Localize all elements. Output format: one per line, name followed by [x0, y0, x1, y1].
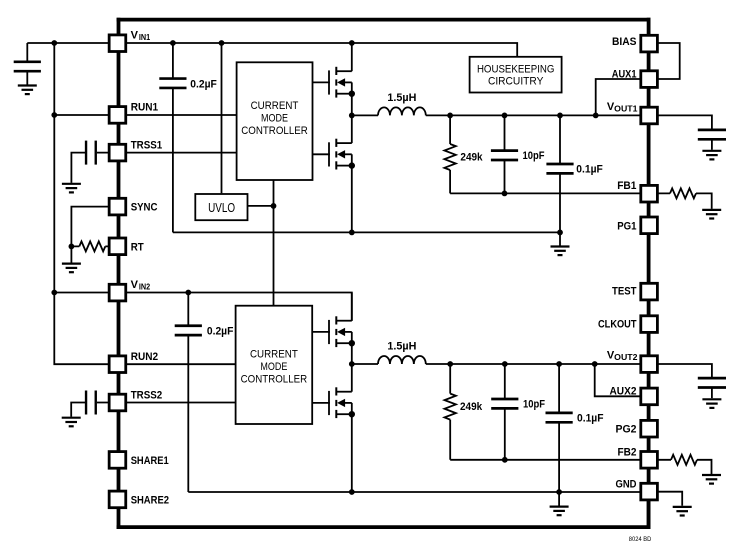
wire VOUT2 net	[426, 363, 640, 365]
resistor R1 249k vertical leads	[449, 115, 451, 193]
block U3 CURRENT MODE CONTROLLER 2	[236, 306, 313, 424]
wire FB1 resistor leads	[658, 193, 711, 209]
svg-text:IN1: IN1	[139, 33, 151, 42]
wire VIN1 input cap stub	[26, 43, 28, 85]
wire AUX2 to VOUT2	[595, 364, 640, 396]
svg-text:CLKOUT: CLKOUT	[598, 319, 637, 331]
ground for TRSS1	[62, 184, 81, 193]
ground for R4	[702, 475, 721, 484]
wire UVLO output to controller bus	[248, 205, 274, 207]
node 0.2uF C4 top	[185, 290, 191, 296]
wire Q3 source to switch node	[351, 343, 353, 364]
IC outline top border	[117, 18, 651, 22]
wire RT node stubs	[71, 245, 108, 247]
wire VIN2 pin to tie	[54, 292, 108, 294]
svg-text:V: V	[131, 30, 139, 42]
inductor L2 1.5uH	[378, 356, 426, 364]
svg-text:1.5µH: 1.5µH	[387, 340, 416, 352]
svg-text:0.2µF: 0.2µF	[190, 78, 217, 90]
wire COUT2 to ground	[711, 388, 713, 399]
node C2 bottom on FB1 wire	[502, 191, 508, 197]
pin BIAS	[612, 35, 657, 52]
pin TRSS1	[109, 139, 162, 161]
wire VOUT2 to output cap	[658, 364, 712, 378]
svg-text:10pF: 10pF	[523, 399, 545, 411]
wire AUX1 to VOUT1	[596, 79, 640, 115]
ground for ch1 return	[551, 247, 570, 256]
pin SHARE2	[109, 491, 169, 508]
resistor R4 (FB2)	[671, 455, 697, 465]
wire Q3 drain stub	[351, 293, 353, 321]
IC outline right border	[647, 18, 651, 529]
svg-text:OUT1: OUT1	[614, 105, 638, 114]
wire ground return / GND pin wire	[188, 491, 640, 493]
svg-text:GND: GND	[616, 478, 637, 490]
wire Q1 source to switch node	[351, 94, 353, 116]
capacitor CIN1 (input cap)	[14, 62, 41, 71]
node VIN1 rail / left vertical junction	[51, 40, 57, 46]
pin VOUT1	[607, 101, 657, 124]
wire Q4 drain to switch node	[351, 364, 353, 392]
wire 0.2uF C1 vertical	[172, 43, 174, 232]
wire SYNC to RT ground node	[71, 207, 108, 247]
ground for COUT1	[702, 151, 721, 160]
svg-text:RT: RT	[131, 241, 144, 253]
svg-text:1.5µH: 1.5µH	[387, 92, 416, 104]
wire GND pin to ground	[658, 492, 682, 506]
svg-text:SHARE1: SHARE1	[131, 455, 169, 467]
node UVLO sense junction on VIN1 rail	[219, 40, 225, 46]
pin RUN2	[109, 351, 158, 373]
wire GND pin bottom stub to border	[647, 500, 651, 527]
svg-text:CONTROLLER: CONTROLLER	[241, 374, 308, 386]
svg-text:OUT2: OUT2	[614, 353, 638, 362]
pin RUN1	[109, 102, 158, 124]
svg-text:CURRENT: CURRENT	[251, 100, 299, 112]
wire UVLO sense vertical	[221, 43, 223, 193]
pin FB2	[618, 446, 658, 468]
svg-text:SHARE2: SHARE2	[131, 494, 169, 506]
block UVLO	[195, 194, 247, 220]
svg-text:8024 BD: 8024 BD	[629, 537, 652, 543]
svg-text:CIRCUITRY: CIRCUITRY	[488, 76, 544, 88]
block U2 HOUSEKEEPING CIRCUITRY	[470, 57, 562, 93]
svg-text:TRSS2: TRSS2	[131, 389, 163, 401]
IC outline bottom border	[117, 525, 651, 529]
resistor R2 249k leads	[449, 364, 451, 460]
wire SW2 to inductor	[352, 363, 378, 365]
svg-text:0.1µF: 0.1µF	[576, 164, 603, 176]
transistor Q3 (ch2 top NMOS)	[329, 316, 355, 347]
capacitor soft-start TRSS2	[86, 391, 96, 415]
node VIN2 tie	[51, 290, 57, 296]
pin RT	[109, 238, 144, 255]
node SYNC/RT ground junction	[69, 244, 75, 250]
wire TRSS1 pin to controller	[97, 152, 237, 154]
capacitor C2 10pF verticals	[504, 115, 506, 193]
wire BIAS to AUX1 loop	[658, 43, 679, 79]
node C3 bottom / return end	[557, 230, 563, 236]
wire VOUT1 to output cap	[658, 115, 712, 129]
transistor Q1 (ch1 top NMOS)	[329, 67, 355, 98]
wire Q4 source to ground return	[351, 414, 353, 492]
svg-text:RUN1: RUN1	[131, 102, 158, 114]
ground for RT/SYNC	[62, 264, 81, 273]
wire left vertical bus (VIN tie) + RUN2 wire	[54, 43, 235, 364]
ground for R3	[702, 210, 721, 219]
capacitor C5 10pF	[491, 399, 518, 408]
svg-text:V: V	[131, 279, 139, 291]
node 0.2uF C1 top junction	[170, 40, 176, 46]
svg-text:249k: 249k	[460, 152, 483, 164]
pin PG1	[617, 217, 657, 234]
wire Q2 drain to switch node	[351, 115, 353, 143]
pin AUX2	[610, 386, 658, 405]
wire channel-1 power return at y=232	[173, 231, 560, 233]
wire TRSS2 cap to ground	[71, 403, 86, 417]
wire Q1 drain to VIN1 rail	[351, 43, 353, 71]
ground for COUT2	[702, 399, 721, 408]
wire Q2 source to return	[351, 166, 353, 233]
wire FB1 net	[450, 192, 640, 194]
resistor RT	[79, 241, 105, 251]
capacitor C6 0.1uF	[546, 413, 573, 422]
transistor Q4 (ch2 bottom NMOS)	[329, 387, 355, 418]
svg-text:HOUSEKEEPING: HOUSEKEEPING	[477, 64, 555, 76]
pin TRSS2	[109, 389, 162, 411]
wire RT node to ground	[70, 246, 72, 262]
node switch node SW1	[349, 113, 355, 119]
svg-text:UVLO: UVLO	[208, 201, 235, 215]
capacitor C5 10pF verticals	[504, 364, 506, 460]
svg-text:10pF: 10pF	[523, 150, 545, 162]
node UVLO junction	[271, 203, 277, 209]
wire COUT1 to ground	[711, 139, 713, 149]
wire RUN1 to controller	[54, 114, 236, 116]
inductor L1 1.5uH	[378, 107, 426, 115]
capacitor C2 10pF	[491, 151, 518, 160]
pin FB1	[617, 180, 657, 202]
capacitor soft-start TRSS1	[86, 141, 96, 165]
transistor Q2 (ch1 bottom NMOS)	[329, 139, 355, 170]
node 10pF C2 top	[502, 113, 508, 119]
capacitor C3 0.1uF verticals	[559, 115, 561, 245]
svg-text:0.2µF: 0.2µF	[207, 326, 234, 338]
wire gate lead bottom FET Q4	[312, 402, 330, 404]
wire 0.2uF C4 vertical	[187, 293, 189, 493]
wire FB2 resistor leads	[658, 460, 711, 474]
svg-text:MODE: MODE	[261, 113, 288, 125]
capacitor C4 0.2uF	[175, 326, 202, 335]
pin GND	[616, 478, 658, 500]
svg-text:RUN2: RUN2	[131, 351, 158, 363]
resistor R1 249k	[444, 144, 455, 170]
wire SW1 to inductor	[352, 114, 378, 116]
svg-text:SYNC: SYNC	[131, 202, 158, 214]
pin VIN1	[109, 30, 151, 52]
node Q4 source on return	[349, 489, 355, 495]
pin TEST	[612, 283, 657, 300]
block U1 CURRENT MODE CONTROLLER 1	[237, 62, 313, 180]
pin CLKOUT	[598, 316, 657, 333]
svg-text:PG1: PG1	[617, 220, 636, 232]
svg-text:TEST: TEST	[612, 286, 637, 298]
capacitor C6 0.1uF verticals	[558, 364, 560, 506]
resistor R2 249k	[445, 394, 456, 420]
svg-text:TRSS1: TRSS1	[131, 139, 163, 151]
svg-text:AUX1: AUX1	[612, 69, 637, 81]
ground for TRSS2	[62, 418, 81, 427]
capacitor C3 0.1uF	[546, 164, 573, 173]
svg-text:FB1: FB1	[617, 180, 636, 192]
svg-text:FB2: FB2	[618, 446, 637, 458]
node 0.1uF C6 top	[556, 361, 562, 367]
svg-text:AUX2: AUX2	[610, 386, 637, 398]
node 249k R1 top	[447, 113, 453, 119]
svg-text:PG2: PG2	[616, 423, 637, 435]
wire FB2 net	[450, 459, 640, 461]
wire gate lead top FET Q1	[313, 81, 330, 83]
node C6 bottom / return junction	[556, 489, 562, 495]
pin SHARE1	[109, 452, 169, 469]
svg-text:CONTROLLER: CONTROLLER	[241, 125, 308, 137]
svg-text:IN2: IN2	[139, 283, 151, 292]
node C5 bottom on FB2 wire	[502, 457, 508, 463]
node Q1 drain on rail	[349, 40, 355, 46]
capacitor COUT1	[698, 130, 726, 139]
pin PG2	[616, 420, 658, 437]
pin VOUT2	[607, 350, 657, 373]
node Q2 source on return wire	[349, 230, 355, 236]
node 249k R2 top	[447, 361, 453, 367]
pin VIN2	[109, 279, 151, 301]
node AUX1 tie on VOUT1	[593, 113, 599, 119]
wire VIN2 rail	[127, 293, 352, 321]
resistor R3 (FB1)	[670, 188, 696, 198]
wire VOUT1 net	[426, 114, 640, 116]
node RUN1 tie junction	[51, 112, 57, 118]
svg-text:CURRENT: CURRENT	[250, 348, 298, 360]
ground for CIN1	[18, 86, 37, 95]
wire controller1 to controller2 bus	[273, 180, 275, 306]
wire gate lead top FET Q3	[312, 331, 330, 333]
wire TRSS1 cap to ground	[71, 153, 86, 183]
node switch node SW2	[349, 361, 355, 367]
capacitor C1 0.2uF	[159, 79, 186, 88]
node 10pF C5 top	[502, 361, 508, 367]
IC outline left border	[117, 18, 121, 529]
ground for GND pin	[673, 507, 692, 516]
wire gate lead bottom FET Q2	[313, 153, 330, 155]
pin SYNC	[109, 198, 157, 215]
node AUX2 tie on VOUT2	[592, 361, 598, 367]
capacitor COUT2	[698, 378, 726, 387]
node 0.1uF C3 top	[557, 113, 563, 119]
svg-text:0.1µF: 0.1µF	[577, 413, 604, 425]
svg-text:BIAS: BIAS	[612, 36, 637, 48]
wire TRSS2 pin to controller	[97, 402, 236, 404]
wire VIN1 rail to housekeeping	[27, 43, 517, 58]
pin AUX1	[612, 69, 658, 88]
svg-text:MODE: MODE	[260, 361, 287, 373]
ground for ch2 return	[550, 507, 569, 516]
svg-text:249k: 249k	[460, 401, 483, 413]
